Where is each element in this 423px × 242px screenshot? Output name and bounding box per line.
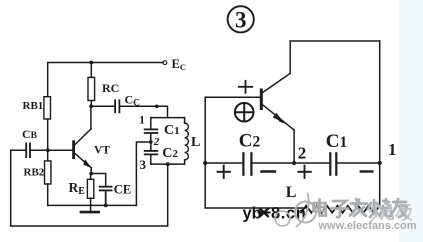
you bbox=[392, 199, 407, 217]
wire emitter to node 2 bbox=[293, 130, 295, 163]
svg-text:RC: RC bbox=[102, 81, 119, 95]
emitter right bbox=[263, 105, 295, 130]
wire Cc to tank bbox=[119, 106, 167, 117]
resistor RB2 bbox=[45, 161, 51, 184]
plus above base bbox=[239, 81, 252, 93]
wire tank top rail bbox=[151, 117, 185, 119]
wire RE top bbox=[90, 174, 92, 180]
wire CB left bbox=[11, 149, 26, 151]
svg-text:3: 3 bbox=[235, 8, 247, 33]
svg-text:1: 1 bbox=[388, 140, 397, 159]
terminal Ec bbox=[163, 61, 167, 65]
watermark 电子发烧友 (simplified strokes) bbox=[314, 199, 408, 217]
svg-text:RB1: RB1 bbox=[23, 100, 44, 112]
minus left of node 1 bbox=[361, 170, 373, 172]
wire base bbox=[48, 149, 72, 151]
wire RB2 top bbox=[47, 150, 49, 161]
ground bbox=[90, 205, 92, 211]
node collector-rail junction bbox=[89, 61, 93, 65]
inductor L right bbox=[301, 206, 378, 213]
wire RC top bbox=[90, 63, 92, 78]
circled plus bbox=[235, 103, 254, 122]
plus right of node 2 bbox=[298, 166, 311, 178]
dian bbox=[314, 200, 327, 216]
wire main rail segments bbox=[205, 162, 243, 164]
capacitor Cc bbox=[115, 100, 119, 112]
capacitor CE branch bbox=[91, 174, 106, 187]
wire node2 feedback bbox=[136, 142, 150, 205]
wire emitter stub bbox=[90, 168, 92, 174]
wire right edge bbox=[379, 41, 381, 208]
capacitor C1 bbox=[145, 129, 158, 133]
wire base bbox=[205, 96, 260, 98]
resistor RB1 bbox=[44, 97, 51, 119]
svg-text:L: L bbox=[191, 135, 200, 150]
wire RC bottom bbox=[90, 101, 92, 107]
node left bbox=[203, 161, 207, 165]
svg-text:1: 1 bbox=[139, 113, 145, 127]
wire C1 bottom lead bbox=[150, 133, 152, 142]
node base bbox=[46, 148, 50, 152]
watermark ghost double of shao/you bbox=[370, 202, 411, 220]
svg-text:C2: C2 bbox=[239, 131, 261, 152]
node CE bottom bbox=[104, 204, 108, 208]
wire C1 top lead bbox=[150, 118, 152, 130]
svg-text:2: 2 bbox=[153, 136, 160, 148]
wire left edge bbox=[10, 150, 12, 226]
svg-text:L: L bbox=[286, 184, 297, 201]
wire top rail right circuit bbox=[290, 40, 380, 42]
svg-text:VT: VT bbox=[94, 145, 110, 157]
capacitor C2 bbox=[145, 151, 158, 155]
transistor VT bbox=[72, 142, 75, 158]
wire bottom left segment bbox=[205, 207, 306, 209]
node 2 right bbox=[292, 161, 296, 165]
svg-text:2: 2 bbox=[298, 143, 307, 162]
wire top rail bbox=[48, 62, 163, 64]
fa bbox=[350, 199, 367, 216]
capacitor C1 right bbox=[330, 153, 336, 174]
wire C2 leads bbox=[150, 142, 152, 151]
svg-text:www.elecfans.com: www.elecfans.com bbox=[318, 220, 417, 232]
svg-text:C1: C1 bbox=[326, 131, 347, 152]
wire RB2 bottom bbox=[47, 184, 49, 205]
node collector/Cc junction bbox=[89, 104, 93, 108]
wire CB right bbox=[30, 149, 48, 151]
wire RB1 top bbox=[47, 63, 49, 97]
circled 3 bbox=[228, 6, 254, 32]
plus sign left of C2 bbox=[218, 166, 231, 178]
svg-text:3: 3 bbox=[140, 157, 147, 172]
light blue scan band right edge bbox=[399, 0, 423, 242]
inductor L bbox=[184, 118, 186, 123]
resistor RC bbox=[88, 77, 95, 100]
wire left edge right circuit bbox=[204, 97, 206, 207]
capacitor C2 right bbox=[243, 153, 251, 174]
shao bbox=[368, 199, 391, 217]
wire collector bbox=[90, 106, 92, 129]
wire outer bottom rail bbox=[11, 225, 168, 227]
wire tank to outer rail bbox=[167, 164, 169, 226]
node emitter bbox=[89, 172, 93, 176]
svg-text:CE: CE bbox=[114, 183, 131, 197]
capacitor CB bbox=[26, 143, 30, 157]
minus right of C2 bbox=[262, 170, 276, 172]
svg-text:C1: C1 bbox=[164, 123, 180, 138]
resistor RE bbox=[87, 179, 93, 198]
wire tank bottom rail bbox=[151, 163, 185, 165]
wire RE bottom bbox=[90, 198, 92, 205]
svg-text:C2: C2 bbox=[162, 146, 178, 161]
elecfans horn icon bbox=[275, 193, 316, 228]
zi bbox=[331, 201, 348, 217]
node 2 bbox=[149, 140, 153, 144]
wire RB1 bottom bbox=[47, 119, 49, 150]
node 3 junction bbox=[166, 162, 170, 166]
wire to Cc bbox=[91, 105, 115, 107]
node on Cc wire bbox=[155, 105, 159, 109]
svg-text:RB2: RB2 bbox=[24, 167, 45, 179]
wire collector right bbox=[263, 41, 291, 93]
transistor bar bbox=[260, 90, 263, 109]
node 1 bbox=[378, 161, 382, 165]
wire inner ground rail bbox=[48, 204, 137, 206]
